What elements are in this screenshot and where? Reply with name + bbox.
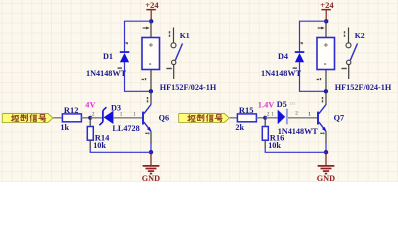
pin number 1 of D1: [118, 67, 122, 68]
wire +24 node to D4 cathode: [300, 21, 327, 51]
svg-text:GND: GND: [317, 174, 335, 182]
svg-text:4V: 4V: [85, 100, 95, 109]
junction at ground node (right): [324, 150, 328, 154]
svg-text:HF152F/024-1H: HF152F/024-1H: [160, 83, 217, 92]
svg-text:1.4V: 1.4V: [258, 100, 275, 109]
port 控制信号 (right): [179, 114, 230, 123]
zener diode D3 (LL4728): [90, 107, 113, 125]
ground GND (right): [317, 152, 335, 183]
svg-text:R15: R15: [239, 105, 254, 115]
transistor Q7 collector pin (3): [322, 91, 326, 104]
svg-text:K1: K1: [180, 31, 190, 40]
svg-text:D5: D5: [277, 100, 287, 109]
wire D1 anode to coil bottom: [125, 62, 151, 91]
junction at 4V node: [88, 116, 92, 120]
svg-text:LL4728: LL4728: [112, 124, 139, 133]
pin number 4 of K2 contact: [341, 68, 346, 69]
pin number 3 of K1 contact: [169, 31, 170, 37]
svg-text:1: 1: [308, 111, 311, 117]
relay K1 coil pin 2 (bottom): [142, 70, 151, 92]
pin number 2 of Q6 emitter: [145, 132, 149, 134]
svg-text:1: 1: [133, 111, 136, 117]
resistor R15 (2k): [237, 114, 265, 122]
pin number 2 of Q7 emitter: [320, 132, 324, 134]
pin number 2 of D4: [300, 42, 302, 44]
pin number 4 of K1 contact: [166, 68, 171, 69]
svg-text:1: 1: [271, 111, 274, 117]
power +24 (left): [145, 0, 159, 21]
diode D1 (flyback, cathode up): [120, 51, 130, 62]
transistor Q7 (NPN): [317, 105, 326, 132]
pin number 3 of K2 contact: [344, 31, 345, 37]
resistor R14 (10k): [87, 118, 93, 148]
svg-text:10k: 10k: [93, 141, 106, 150]
svg-text:Q7: Q7: [334, 113, 344, 122]
junction at +24 node (right): [324, 19, 328, 23]
svg-text:1N4148WT: 1N4148WT: [86, 69, 127, 78]
wire R16 bottom to ground rail: [265, 147, 326, 152]
wire D3 to Q6 base: [113, 117, 142, 119]
junction coil bottom / collector node (right): [324, 89, 328, 93]
wire D4 anode to coil bottom: [300, 62, 326, 91]
junction at 1.4V node: [263, 116, 267, 120]
svg-text:1k: 1k: [60, 123, 69, 132]
junction coil bottom / collector node (left): [149, 89, 153, 93]
svg-text:D1: D1: [103, 52, 113, 61]
pin number 1 of D4: [293, 67, 297, 68]
ground GND (left): [142, 152, 160, 183]
relay K1 coil pin 4 (top): [143, 21, 151, 37]
wire Q7 emitter to ground: [325, 131, 327, 152]
svg-text:D4: D4: [278, 52, 288, 61]
relay K1 coil (HF152F/024-1H): [142, 38, 160, 70]
relay K2 coil (HF152F/024-1H): [317, 38, 335, 70]
svg-text:+24: +24: [320, 0, 334, 10]
svg-text:+24: +24: [145, 0, 159, 10]
svg-text:2: 2: [295, 110, 298, 116]
svg-text:K2: K2: [355, 31, 365, 40]
svg-text:1N4148WT: 1N4148WT: [261, 69, 302, 78]
wire port to R15: [230, 117, 238, 119]
svg-text:2: 2: [267, 112, 270, 118]
relay K1 contact (switch): [171, 28, 183, 80]
wire Q6 emitter to ground: [150, 131, 152, 152]
port 控制信号 (left): [2, 114, 53, 123]
resistor R12 (1k): [62, 114, 90, 122]
svg-text:GND: GND: [142, 174, 160, 182]
svg-text:2k: 2k: [235, 123, 244, 132]
relay K2 coil pin 2 (bottom): [317, 70, 326, 92]
wire D5 to Q7 base: [288, 117, 317, 119]
junction at +24 node (left): [149, 19, 153, 23]
svg-text:Q6: Q6: [159, 113, 169, 122]
power +24 (right): [320, 0, 334, 21]
resistor R16 (10k): [262, 118, 268, 148]
wire port to R12: [53, 117, 62, 119]
diode D4 (flyback, cathode up): [295, 51, 305, 62]
transistor Q6 collector pin (3): [147, 91, 151, 104]
svg-text:D5: D5: [290, 101, 296, 106]
svg-text:2: 2: [92, 112, 95, 118]
transistor Q6 (NPN): [142, 105, 151, 132]
svg-text:HF152F/024-1H: HF152F/024-1H: [335, 83, 392, 92]
junction at ground node (left): [149, 150, 153, 154]
wire +24 node to D1 cathode: [125, 21, 152, 51]
relay K2 coil pin 4 (top): [318, 21, 326, 37]
pin number 2 of D1: [125, 42, 127, 44]
relay K2 contact (switch): [346, 28, 358, 80]
wire R14 bottom to ground rail: [90, 147, 151, 152]
diode D5 (1N4148WT, series): [265, 109, 287, 125]
svg-text:D3: D3: [111, 104, 121, 113]
svg-text:10k: 10k: [268, 141, 281, 150]
svg-text:R12: R12: [64, 105, 79, 115]
